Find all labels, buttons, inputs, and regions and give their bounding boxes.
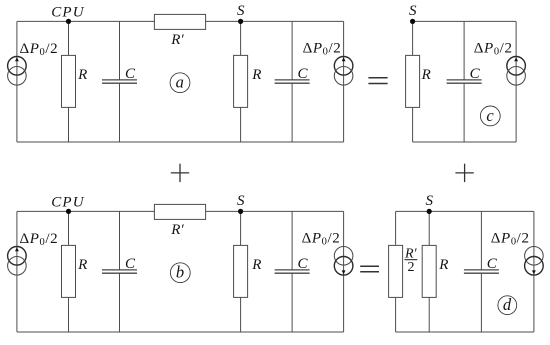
wire: circuit (a) right edge (343, 21, 345, 142)
wire: C branch (c) (463, 21, 465, 142)
wire: R′/2 branch (d) (395, 211, 397, 332)
wire: circuit (d) bottom rail (396, 331, 534, 333)
operator: equals between (a) and (c) (368, 78, 387, 84)
sub-circuit label (b) (170, 263, 190, 283)
wire: circuit (d) top rail (396, 210, 534, 212)
svg-text:b: b (176, 263, 184, 282)
capacitor C (c) (447, 80, 482, 83)
svg-text:C: C (298, 256, 309, 272)
sub-circuit label (a) (170, 73, 190, 93)
wire: circuit (d) right edge (533, 211, 535, 332)
svg-text:a: a (176, 73, 184, 92)
svg-text:R′: R′ (170, 222, 184, 238)
wire: circuit (b) top rail (17, 210, 344, 212)
resistor R (c) (406, 55, 420, 107)
svg-text:CPU: CPU (51, 194, 85, 210)
svg-text:R: R (438, 257, 448, 273)
wire: R branch (d) (428, 211, 430, 332)
wire: circuit (b) left edge (16, 211, 18, 332)
wire: C branch 2 (b) (291, 211, 293, 332)
wire: C branch 2 (a) (291, 21, 293, 142)
svg-text:ΔP0/2: ΔP0/2 (474, 40, 513, 57)
svg-text:S: S (237, 3, 245, 19)
svg-text:R′: R′ (170, 32, 184, 48)
node S (b) (238, 209, 243, 214)
resistor R (right, a) (234, 55, 248, 107)
label R′/2 (d) (404, 247, 418, 275)
svg-text:R: R (77, 67, 87, 83)
svg-text:C: C (470, 66, 481, 82)
operator: plus below (a) (171, 164, 189, 182)
wire: circuit (a) bottom rail (17, 141, 344, 143)
wire: R branch 1 (a) (68, 21, 70, 142)
svg-text:S: S (237, 193, 245, 209)
wire: circuit (c) bottom rail (413, 141, 516, 143)
wire: circuit (c) top rail (413, 20, 516, 22)
wire: C branch 1 (a) (119, 21, 121, 142)
wire: circuit (a) top rail (17, 20, 344, 22)
capacitor C (left, b) (102, 270, 137, 273)
resistor R′ (a) (154, 14, 205, 29)
capacitor C (d) (464, 270, 499, 273)
current source I (c) value ΔP0/2 (507, 57, 526, 86)
wire: circuit (a) left edge (16, 21, 18, 142)
wire: R branch 2 (a) (240, 21, 242, 142)
svg-text:ΔP0/2: ΔP0/2 (491, 231, 530, 248)
resistor R′ (b) (154, 204, 205, 219)
node CPU (b) (66, 209, 71, 214)
svg-text:C: C (298, 66, 309, 82)
svg-text:2: 2 (408, 260, 415, 275)
wire: R branch 1 (b) (68, 211, 70, 332)
svg-text:S: S (426, 193, 434, 209)
resistor R (d) (422, 245, 436, 297)
operator: plus below (c) (455, 164, 473, 182)
wire: circuit (b) right edge (343, 211, 345, 332)
current source I1 (a) value ΔP0/2 (8, 57, 27, 86)
capacitor C (right, b) (275, 270, 310, 273)
svg-text:R: R (251, 67, 261, 83)
svg-text:C: C (125, 256, 136, 272)
svg-text:S: S (409, 3, 417, 19)
operator: equals between (b) and (d) (360, 266, 379, 272)
resistor R′/2 (d) (389, 245, 403, 297)
svg-text:CPU: CPU (51, 4, 85, 20)
node S (a) (238, 19, 243, 24)
svg-text:C: C (487, 256, 498, 272)
svg-text:ΔP0/2: ΔP0/2 (302, 230, 341, 247)
node S (d) (427, 209, 432, 214)
node CPU (a) (66, 19, 71, 24)
current source I2 (b) value ΔP0/2 (334, 247, 353, 276)
svg-text:R: R (77, 257, 87, 273)
current source I (d) value ΔP0/2 (525, 247, 544, 276)
wire: R branch (c) (412, 21, 414, 142)
wire: R branch 2 (b) (240, 211, 242, 332)
svg-text:c: c (486, 106, 494, 125)
current source I1 (b) value ΔP0/2 (8, 247, 27, 276)
resistor R (right, b) (234, 245, 248, 297)
svg-text:ΔP0/2: ΔP0/2 (20, 231, 59, 248)
sub-circuit label (d) (498, 295, 517, 315)
svg-text:R: R (251, 257, 261, 273)
wire: circuit (c) right edge (515, 21, 517, 142)
sub-circuit label (c) (480, 106, 500, 126)
svg-text:R: R (421, 67, 431, 83)
svg-text:ΔP0/2: ΔP0/2 (303, 40, 342, 57)
capacitor C (right, a) (275, 80, 310, 83)
svg-text:ΔP0/2: ΔP0/2 (20, 41, 59, 58)
current source I2 (a) value ΔP0/2 (334, 57, 353, 86)
resistor R (left, a) (62, 55, 76, 107)
wire: circuit (b) bottom rail (17, 331, 344, 333)
resistor R (left, b) (62, 245, 76, 297)
svg-text:C: C (125, 66, 136, 82)
wire: C branch (d) (480, 211, 482, 332)
node S (c) (410, 19, 415, 24)
wire: C branch 1 (b) (119, 211, 121, 332)
capacitor C (left, a) (102, 80, 137, 83)
svg-text:d: d (503, 295, 512, 314)
